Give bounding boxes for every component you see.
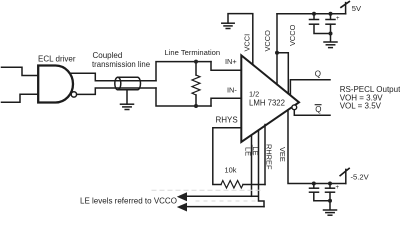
- svg-text:transmission line: transmission line: [92, 60, 150, 69]
- comparator U2 1/2 LMH7322 triangle: [241, 55, 299, 142]
- node dot bottom of RT: [194, 104, 198, 108]
- ground under coax: [121, 104, 134, 109]
- svg-text:+: +: [336, 185, 340, 191]
- wire RHREF pin: [264, 125, 266, 185]
- capacitor C3: [310, 184, 331, 201]
- wire coax shield to ground: [126, 90, 128, 104]
- svg-text:IN-: IN-: [227, 86, 237, 95]
- wire Q output: [290, 80, 330, 95]
- svg-text:LE levels referred to VCCO: LE levels referred to VCCO: [80, 196, 177, 205]
- svg-text:-5.2V: -5.2V: [351, 173, 370, 182]
- output inversion bubble Qbar: [292, 105, 297, 110]
- svg-text:Line Termination: Line Termination: [165, 48, 221, 57]
- ground at VCCI: [222, 23, 234, 28]
- svg-text:VCCO: VCCO: [288, 24, 297, 46]
- svg-text:IN+: IN+: [225, 57, 237, 66]
- node dot C1 C2 junction: [329, 32, 333, 36]
- wire gate output complement: [77, 88, 156, 94]
- node dot C3 C4 junction: [328, 199, 332, 203]
- svg-text:+: +: [336, 16, 340, 22]
- node dot top of RT: [194, 60, 198, 64]
- svg-text:RHYS: RHYS: [216, 116, 238, 125]
- svg-text:Q: Q: [315, 105, 321, 114]
- svg-text:LMH 7322: LMH 7322: [249, 99, 285, 108]
- ghost marks above LE lines: [152, 190, 263, 201]
- label LEbar: [251, 145, 260, 155]
- capacitor C1: [310, 14, 331, 34]
- 5V supply arrow: [341, 2, 349, 14]
- svg-text:RHREF: RHREF: [265, 144, 274, 170]
- wire ECL input bottom: [2, 94, 39, 102]
- wire VEE pin: [288, 110, 346, 184]
- node dot C2: [329, 12, 333, 16]
- wire termination left bus: [156, 62, 211, 81]
- wire 5V supply rail: [277, 13, 346, 15]
- resistor R1 10k zigzag: [221, 181, 243, 189]
- wire ECL input top: [2, 67, 39, 75]
- svg-text:ECL driver: ECL driver: [38, 55, 76, 64]
- wire VCCI pin to ground: [228, 14, 253, 65]
- LE level line 1: [187, 195, 258, 197]
- wire LEbar pin: [259, 131, 265, 207]
- wire gate output true: [71, 73, 156, 81]
- svg-text:Q: Q: [315, 70, 321, 79]
- wire IN+: [211, 62, 241, 71]
- LE level arrow 2: [177, 203, 187, 212]
- wire 10k to RHREF: [243, 184, 265, 186]
- ECL driver output bubble: [71, 92, 76, 97]
- node dot VCCO tie: [275, 51, 279, 55]
- ground bottom right: [324, 210, 337, 215]
- LE level arrow 1: [177, 192, 187, 201]
- resistor RT zigzag: [192, 75, 200, 95]
- resistor RT stubs: [195, 62, 197, 75]
- wire IN-: [211, 98, 241, 106]
- svg-text:5V: 5V: [352, 4, 362, 13]
- capacitor C2 polarized: [326, 14, 340, 42]
- wire VCCO pin 2 jog: [277, 53, 288, 94]
- svg-text:VOL = 3.5V: VOL = 3.5V: [340, 102, 382, 111]
- wire LE pin: [251, 135, 253, 196]
- svg-text:Coupled: Coupled: [93, 51, 123, 60]
- svg-text:10k: 10k: [225, 166, 237, 175]
- wire Qbar output: [294, 110, 330, 116]
- coupled transmission line symbol: [115, 77, 141, 90]
- svg-text:VCCI: VCCI: [243, 34, 252, 52]
- node dot C4: [328, 182, 332, 186]
- wire RHYS: [213, 128, 242, 185]
- wire VCCO pin 1: [276, 14, 278, 85]
- node dot C1: [312, 12, 316, 16]
- svg-text:VCCO: VCCO: [263, 30, 272, 52]
- -5.2V supply arrow: [340, 168, 349, 183]
- node dot C3: [312, 182, 316, 186]
- label Qbar: [315, 105, 321, 114]
- ECL driver gate U1: [38, 66, 73, 103]
- ground top right: [324, 42, 337, 48]
- capacitor C4 polarized: [326, 184, 340, 210]
- svg-text:VEE: VEE: [278, 147, 287, 162]
- LE level line 2: [187, 206, 264, 208]
- svg-text:1/2: 1/2: [249, 90, 259, 99]
